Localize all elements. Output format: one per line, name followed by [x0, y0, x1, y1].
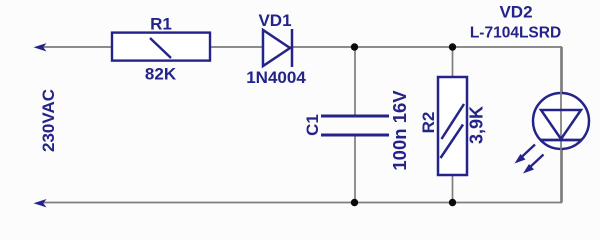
svg-text:82K: 82K: [145, 65, 177, 84]
svg-text:100n 16V: 100n 16V: [389, 90, 410, 171]
svg-text:1N4004: 1N4004: [246, 68, 306, 87]
svg-text:R2: R2: [419, 112, 438, 134]
svg-text:C1: C1: [303, 114, 322, 136]
svg-text:3,9K: 3,9K: [467, 106, 487, 144]
svg-text:230VAC: 230VAC: [39, 89, 58, 152]
svg-text:VD2: VD2: [499, 3, 532, 22]
svg-text:R1: R1: [150, 15, 172, 34]
svg-text:L-7104LSRD: L-7104LSRD: [470, 25, 561, 42]
svg-text:VD1: VD1: [258, 11, 291, 30]
